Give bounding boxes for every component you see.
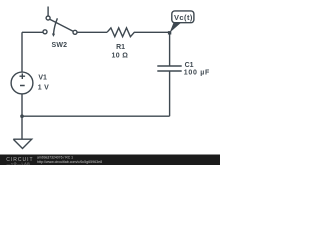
wire [22, 115, 170, 117]
wire [169, 71, 171, 116]
probe flag Vc(t) [172, 11, 194, 23]
ground [13, 116, 31, 148]
svg-text:10 Ω: 10 Ω [112, 52, 129, 59]
capacitor C1 [157, 66, 181, 71]
resistor R1 [107, 28, 170, 37]
wire [169, 33, 171, 66]
svg-text:100 µF: 100 µF [184, 70, 210, 77]
svg-text:http://www.circuitlab.com/c/6c: http://www.circuitlab.com/c/6c5g65963e8 [37, 160, 102, 164]
wire [22, 31, 43, 33]
wire [21, 32, 23, 72]
wire [77, 31, 107, 33]
flag pointer [170, 23, 181, 33]
svg-text:SW2: SW2 [52, 42, 68, 49]
switch SW2 arrow head [52, 34, 55, 37]
wire [21, 94, 23, 116]
voltage source V1 [11, 72, 33, 94]
svg-text:—≈⊛—LAB: —≈⊛—LAB [7, 161, 31, 165]
svg-text:Vc(t): Vc(t) [174, 13, 193, 22]
switch SW2 [47, 7, 49, 17]
node square [168, 31, 171, 34]
svg-text:R1: R1 [116, 44, 125, 51]
svg-text:C1: C1 [185, 62, 194, 69]
junction [20, 114, 24, 118]
svg-text:1 V: 1 V [38, 85, 49, 92]
watermark bar [0, 155, 220, 166]
svg-text:V1: V1 [38, 75, 47, 82]
